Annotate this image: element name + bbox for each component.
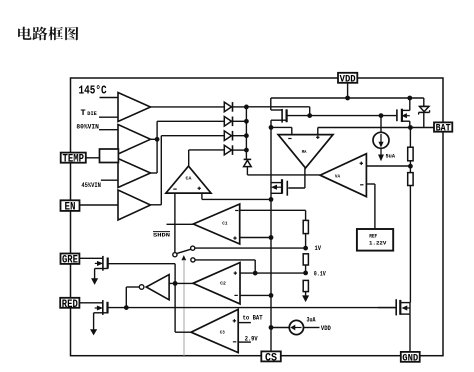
svg-text:VA: VA xyxy=(335,173,340,179)
svg-text:C3: C3 xyxy=(220,330,225,336)
svg-text:GRE: GRE xyxy=(62,255,78,267)
svg-text:C1: C1 xyxy=(222,220,227,226)
svg-text:T: T xyxy=(81,108,86,118)
svg-text:5uA: 5uA xyxy=(386,152,396,159)
svg-text:GND: GND xyxy=(402,353,418,364)
svg-text:2.9V: 2.9V xyxy=(245,335,258,342)
svg-text:C2: C2 xyxy=(220,280,226,286)
svg-text:145°C: 145°C xyxy=(79,85,107,98)
svg-text:45%VIN: 45%VIN xyxy=(81,182,101,189)
svg-text:3uA: 3uA xyxy=(307,316,316,323)
svg-text:EN: EN xyxy=(65,202,76,214)
svg-text:80%VIN: 80%VIN xyxy=(76,124,99,131)
svg-text:SHDN: SHDN xyxy=(153,232,171,239)
svg-text:DIE: DIE xyxy=(87,110,97,117)
svg-text:CS: CS xyxy=(265,352,277,364)
svg-text:BAT: BAT xyxy=(436,124,451,135)
svg-text:1V: 1V xyxy=(315,245,322,252)
svg-text:1.22V: 1.22V xyxy=(369,239,387,246)
svg-text:CA: CA xyxy=(186,176,192,182)
svg-text:0.1V: 0.1V xyxy=(314,270,326,277)
svg-text:VDD: VDD xyxy=(340,74,356,86)
svg-text:RED: RED xyxy=(62,299,78,311)
svg-text:MA: MA xyxy=(302,149,307,155)
svg-text:TEMP: TEMP xyxy=(63,154,85,166)
svg-text:to BAT: to BAT xyxy=(243,315,263,322)
svg-text:VDD: VDD xyxy=(321,325,331,332)
